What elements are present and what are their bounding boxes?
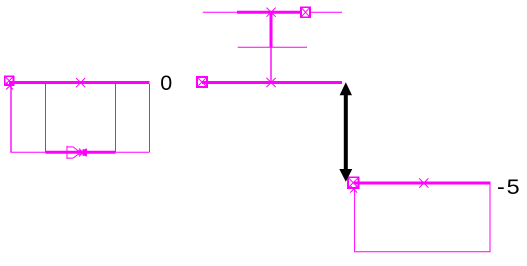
X marker on wire W5 <box>419 178 428 187</box>
wire (bottom right block outline: left, bottom, right) <box>355 185 490 252</box>
probe symbol P1 (funnel on bottom bus) <box>67 146 88 159</box>
wire W1 (left block, thick top bus) <box>10 81 150 84</box>
X marker on wire W4 <box>267 78 276 87</box>
terminal T2 (box-with-X, top middle) <box>300 6 311 18</box>
wire (left block, bottom-left thin) <box>10 151 45 153</box>
wire stub from T4 centre <box>354 182 361 185</box>
dimension arrow (black double-headed) <box>339 82 352 182</box>
wire (left block, right vertical) <box>149 84 151 152</box>
wire W3 (top middle, thick bus) <box>237 11 305 14</box>
X marker on wire W3 <box>267 8 276 17</box>
node label 0 <box>160 73 172 95</box>
terminal T1 (box-with-X, left block top-left) <box>4 75 15 86</box>
wire W2 (left block, bottom thick bus) <box>46 151 116 154</box>
node label -5 <box>497 177 522 199</box>
wire (top middle, thin lead-in) <box>203 11 237 13</box>
X marker at node under terminal T1 <box>6 83 13 90</box>
wire W4 (middle main thick bus) <box>203 81 343 84</box>
terminal T3 (box-with-X, middle left of main bus) <box>196 76 208 88</box>
wire (thick vertical stub below X of W3) <box>270 13 273 47</box>
terminal T4 (box-with-X, bottom right block) <box>347 176 360 189</box>
wire (left block, bottom-right thin) <box>116 151 150 153</box>
wire stub from T1 centre <box>9 81 14 84</box>
X marker at node under terminal T4 <box>350 186 357 193</box>
wire (left block, inner-left vertical) <box>45 84 47 152</box>
wire stub from T3 centre <box>202 81 208 84</box>
wire (left block, left vertical) <box>10 86 12 152</box>
wire W5 (bottom right thick bus) <box>354 182 491 185</box>
wire (thin horizontal crossing line) <box>238 46 307 48</box>
wire (top middle, thin lead-out right of T2) <box>311 11 342 13</box>
wire (left block, inner-right vertical) <box>115 84 117 152</box>
wire (thin vertical down to main bus) <box>270 47 272 81</box>
X marker on wire W1 <box>76 78 85 87</box>
